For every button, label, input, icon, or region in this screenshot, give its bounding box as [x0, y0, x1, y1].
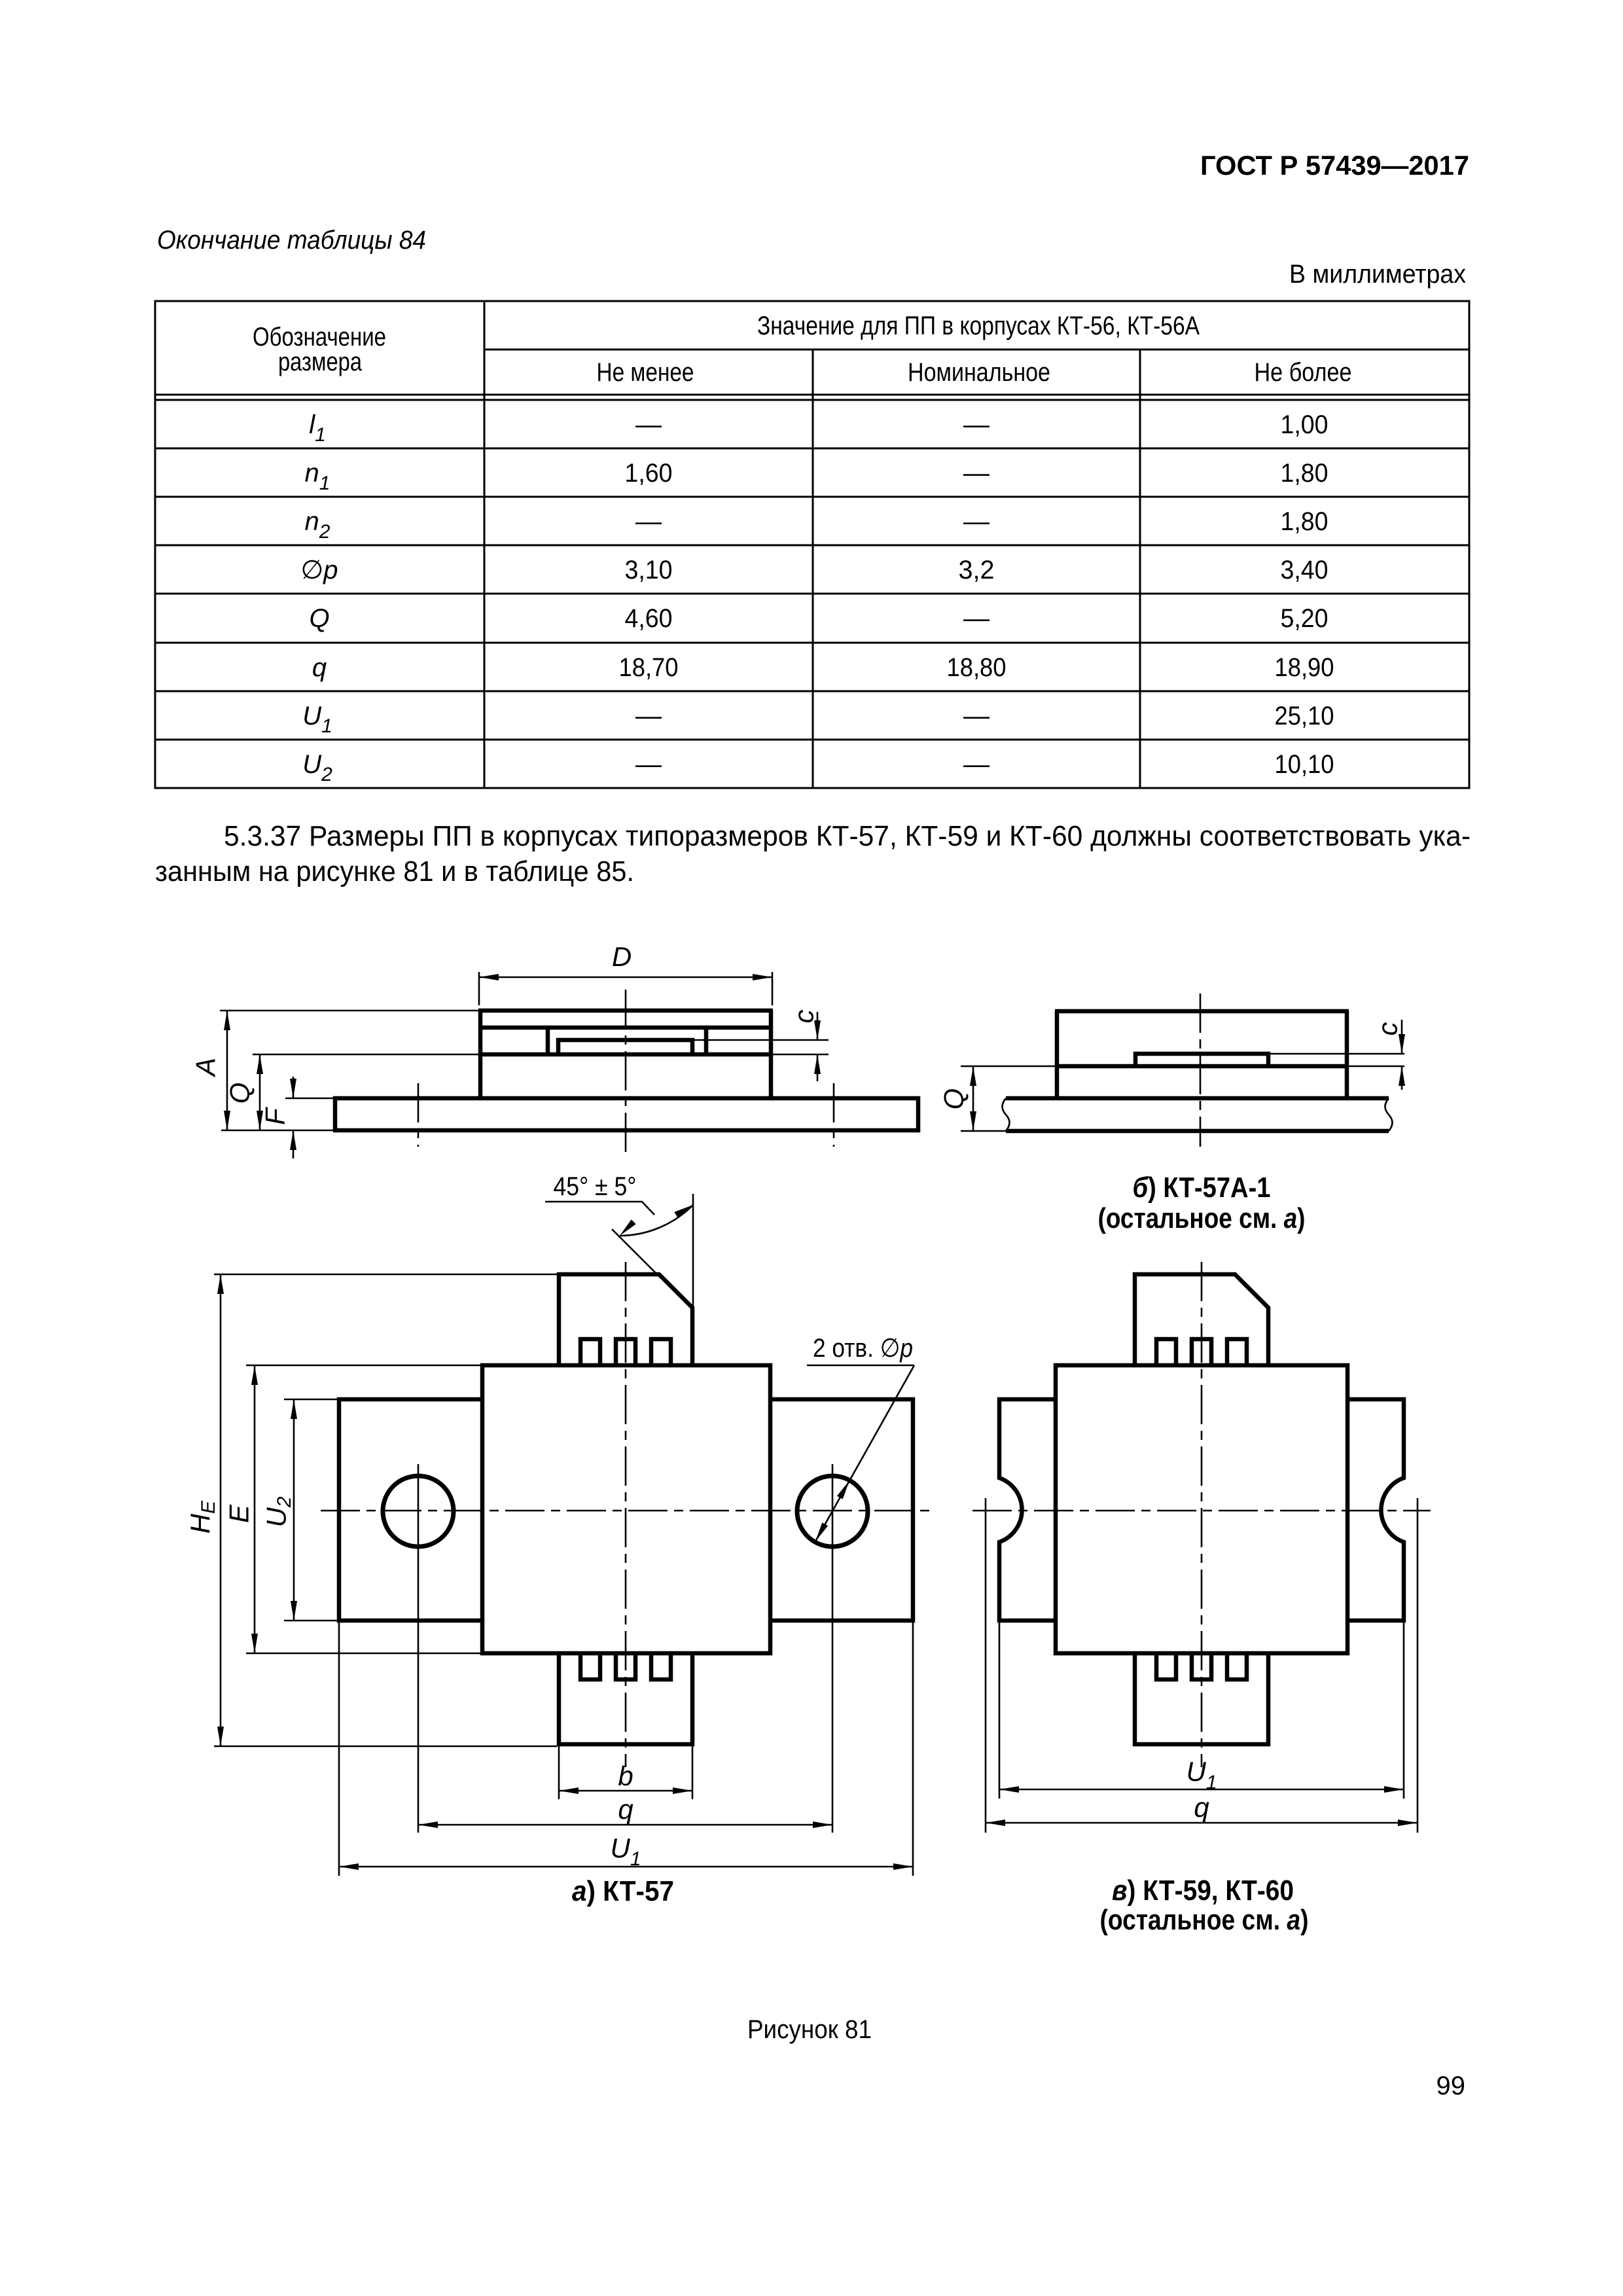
- c extension line upper (side view a): [692, 1039, 829, 1041]
- svg-text:—: —: [635, 702, 662, 730]
- bottom lead block (front view a): [559, 1655, 692, 1744]
- Q extension line upper (side view b): [961, 1066, 1055, 1067]
- D dimension line: [479, 977, 772, 978]
- svg-text:E: E: [224, 1504, 255, 1523]
- svg-text:3,40: 3,40: [1281, 556, 1329, 584]
- svg-text:в) КТ-59, КТ-60: в) КТ-59, КТ-60: [1112, 1874, 1294, 1907]
- body left wall (side view b): [1055, 1011, 1060, 1098]
- F extension line: [285, 1098, 335, 1100]
- left tab with notch (front view v): [999, 1399, 1056, 1621]
- top lead block (front view v): [1135, 1274, 1268, 1363]
- flange left break edge (side view b): [1003, 1098, 1010, 1131]
- Q dimension line (side view b): [972, 1066, 974, 1131]
- right tab (front view a): [772, 1399, 913, 1621]
- hole note leader: [815, 1365, 914, 1541]
- TABLE TEXT: [253, 312, 1352, 785]
- svg-text:—: —: [963, 410, 990, 439]
- bottom pin 1 (front view v): [1156, 1655, 1176, 1679]
- right tab with notch (front view v): [1347, 1399, 1404, 1621]
- D extension lines: [478, 972, 480, 1005]
- 45 deg label leader: [545, 1202, 654, 1215]
- top pin 1 (front view a): [580, 1339, 600, 1363]
- table row line 1: [155, 448, 1469, 450]
- horizontal centerline (front view v): [972, 1510, 1431, 1512]
- svg-text:—: —: [963, 459, 990, 488]
- U1 dimension line (front view v): [999, 1789, 1404, 1791]
- svg-text:занным на рисунке 81 и в табли: занным на рисунке 81 и в таблице 85.: [155, 855, 634, 888]
- svg-text:—: —: [635, 507, 662, 536]
- U1 dimension line (front view a): [339, 1866, 913, 1868]
- horizontal centerline (front view a): [321, 1510, 932, 1512]
- svg-text:5,20: 5,20: [1281, 604, 1329, 633]
- left tab (front view a): [339, 1399, 482, 1621]
- c extension line lower (side view a): [773, 1054, 829, 1056]
- body (front view v): [1056, 1365, 1347, 1653]
- svg-text:5.3.37 Размеры ПП в корпусах т: 5.3.37 Размеры ПП в корпусах типоразмеро…: [224, 820, 1471, 852]
- svg-text:Q: Q: [309, 604, 329, 633]
- flange (side view a): [335, 1098, 918, 1130]
- top lead block (front view a): [559, 1274, 692, 1363]
- svg-text:1,80: 1,80: [1281, 459, 1329, 488]
- body ledge line (side view a): [478, 1052, 773, 1057]
- right hole axis extension (front view a): [832, 1464, 834, 1833]
- TABLE GRID: [155, 301, 1469, 788]
- svg-text:(остальное см. а): (остальное см. а): [1100, 1904, 1309, 1936]
- svg-text:45° ± 5°: 45° ± 5°: [554, 1172, 637, 1201]
- svg-text:U2: U2: [261, 1496, 295, 1527]
- angle arc: [620, 1205, 693, 1236]
- svg-text:—: —: [963, 750, 990, 779]
- E top extension line: [246, 1365, 482, 1367]
- flange top line (side view b): [1006, 1096, 1389, 1101]
- svg-text:18,80: 18,80: [947, 653, 1007, 682]
- package body left wall (side view a): [478, 1011, 483, 1098]
- svg-text:б) КТ-57А-1: б) КТ-57А-1: [1133, 1172, 1271, 1204]
- bottom pin 1 (front view a): [580, 1655, 600, 1679]
- table row line 7: [155, 739, 1469, 741]
- svg-text:10,10: 10,10: [1275, 750, 1334, 779]
- body top line (side view b): [1055, 1009, 1349, 1014]
- right notch axis extension (front view v): [1417, 1498, 1419, 1833]
- svg-text:U2: U2: [302, 750, 332, 785]
- svg-text:Номинальное: Номинальное: [908, 358, 1050, 387]
- svg-text:18,90: 18,90: [1275, 653, 1334, 682]
- svg-text:q: q: [1194, 1792, 1209, 1823]
- left notch axis extension (front view v): [985, 1498, 987, 1833]
- centerline (side view b): [1200, 994, 1202, 1147]
- cap top line (side view a): [478, 1009, 773, 1013]
- U1 extension lines (front view v): [999, 1621, 1001, 1799]
- hole note underline: [807, 1365, 914, 1367]
- centerline package (side view a): [625, 990, 627, 1152]
- svg-text:ГОСТ Р 57439—2017: ГОСТ Р 57439—2017: [1200, 150, 1469, 181]
- DRAWING: [190, 941, 919, 1158]
- chamfer vertical extension: [692, 1194, 694, 1308]
- table header split line: [484, 349, 1469, 351]
- c dimension line (side view a): [817, 1012, 819, 1040]
- svg-text:Q: Q: [224, 1083, 255, 1104]
- flange bottom line (side view b): [1006, 1129, 1389, 1134]
- vertical centerline (front view v): [1201, 1262, 1203, 1767]
- svg-text:q: q: [618, 1794, 633, 1825]
- svg-text:b: b: [618, 1761, 633, 1791]
- svg-text:n2: n2: [305, 507, 330, 543]
- centerline left hole (side view a): [418, 1083, 419, 1147]
- svg-text:F: F: [260, 1107, 291, 1125]
- table row line 4: [155, 593, 1469, 595]
- Q dimension line (side view a): [259, 1054, 261, 1130]
- svg-text:18,70: 18,70: [619, 653, 679, 682]
- svg-text:U1: U1: [302, 702, 332, 737]
- table row line 6: [155, 691, 1469, 692]
- svg-text:25,10: 25,10: [1275, 702, 1334, 730]
- svg-text:1,60: 1,60: [625, 459, 673, 488]
- svg-text:—: —: [963, 702, 990, 730]
- svg-text:3,2: 3,2: [959, 556, 995, 584]
- flange bottom extension line: [221, 1130, 335, 1132]
- U2 bottom extension line: [284, 1620, 339, 1622]
- F dimension line: [293, 1077, 294, 1098]
- U1 extension lines (front view a): [338, 1621, 340, 1876]
- b extension lines: [558, 1746, 560, 1799]
- svg-text:A: A: [190, 1058, 221, 1078]
- svg-text:а) КТ-57: а) КТ-57: [572, 1875, 674, 1907]
- body (front view a): [482, 1365, 770, 1653]
- svg-text:3,10: 3,10: [625, 556, 673, 584]
- table outer border: [155, 301, 1469, 788]
- c dimension line (side view b): [1401, 1020, 1403, 1054]
- table row line 2: [155, 496, 1469, 498]
- svg-text:—: —: [635, 410, 662, 439]
- svg-text:99: 99: [1436, 2072, 1466, 2100]
- left hole axis extension (front view a): [418, 1464, 419, 1833]
- body ledge line (side view b): [1055, 1064, 1349, 1069]
- centerline right hole (side view a): [833, 1083, 835, 1147]
- HE top extension line: [214, 1274, 557, 1276]
- left post (side view a): [546, 1028, 550, 1054]
- bottom pin 2 (front view a): [616, 1655, 635, 1679]
- svg-text:2 отв. ∅p: 2 отв. ∅p: [813, 1334, 913, 1363]
- bottom lead block (front view v): [1135, 1655, 1268, 1744]
- top pin 2 (front view a): [616, 1339, 635, 1363]
- svg-text:D: D: [612, 941, 632, 972]
- svg-text:4,60: 4,60: [625, 604, 673, 633]
- svg-text:—: —: [963, 507, 990, 536]
- q dimension line (front view v): [986, 1822, 1418, 1824]
- E bottom extension line: [246, 1653, 482, 1655]
- table column line 2: [812, 350, 814, 788]
- bottom pin 3 (front view a): [651, 1655, 671, 1679]
- crystal lid (side view b): [1135, 1054, 1268, 1066]
- top pin 1 (front view v): [1156, 1339, 1176, 1363]
- svg-text:1,00: 1,00: [1281, 410, 1329, 439]
- HE dimension line: [220, 1274, 222, 1746]
- package body right wall (side view a): [769, 1011, 774, 1098]
- svg-text:c: c: [789, 1010, 819, 1024]
- svg-text:(остальное см. а): (остальное см. а): [1098, 1202, 1306, 1234]
- top pin 2 (front view v): [1192, 1339, 1211, 1363]
- svg-text:c: c: [1372, 1022, 1403, 1036]
- HE bottom extension line: [214, 1746, 557, 1748]
- svg-text:U1: U1: [610, 1833, 641, 1870]
- top pin 3 (front view v): [1227, 1339, 1247, 1363]
- Q extension line: [253, 1054, 478, 1056]
- table row line 5: [155, 642, 1469, 644]
- svg-text:Рисунок 81: Рисунок 81: [747, 2015, 872, 2044]
- vertical centerline (front view a): [625, 1262, 627, 1767]
- svg-text:—: —: [635, 750, 662, 779]
- flange right break edge (side view b): [1385, 1098, 1393, 1131]
- A dimension line: [226, 1011, 228, 1130]
- table double rule lower: [155, 399, 1469, 401]
- bottom pin 2 (front view v): [1192, 1655, 1211, 1679]
- bottom pin 3 (front view v): [1227, 1655, 1247, 1679]
- right mounting hole (front view a): [797, 1476, 868, 1547]
- b dimension line: [559, 1790, 692, 1792]
- table row line 3: [155, 545, 1469, 547]
- svg-text:HE: HE: [185, 1500, 219, 1534]
- crystal lid (side view a): [558, 1040, 692, 1054]
- q dimension line (front view a): [418, 1824, 832, 1826]
- table column line 1: [484, 301, 486, 788]
- A extension line top: [220, 1010, 478, 1012]
- svg-text:Окончание таблицы 84: Окончание таблицы 84: [157, 226, 426, 255]
- cap bottom line (side view a): [478, 1026, 773, 1030]
- svg-text:U1: U1: [1186, 1756, 1217, 1793]
- svg-text:В миллиметрах: В миллиметрах: [1289, 260, 1466, 289]
- c extension line lower (side view b): [1349, 1066, 1404, 1067]
- svg-text:1,80: 1,80: [1281, 507, 1329, 536]
- top pin 3 (front view a): [651, 1339, 671, 1363]
- svg-text:Q: Q: [938, 1088, 969, 1110]
- table double rule upper: [155, 394, 1469, 396]
- table column line 3: [1139, 350, 1141, 788]
- svg-text:l1: l1: [309, 410, 326, 446]
- U2 top extension line: [284, 1399, 339, 1401]
- svg-text:n1: n1: [305, 459, 330, 494]
- right post (side view a): [704, 1028, 709, 1054]
- E dimension line: [254, 1365, 256, 1653]
- svg-text:∅p: ∅p: [300, 556, 338, 584]
- svg-text:q: q: [312, 653, 327, 682]
- svg-text:Не более: Не более: [1255, 358, 1352, 387]
- left mounting hole (front view a): [383, 1476, 454, 1547]
- U2 dimension line: [293, 1399, 295, 1621]
- svg-text:Значение для ПП в корпусах КТ-: Значение для ПП в корпусах КТ-56, КТ-56А: [757, 312, 1200, 340]
- svg-text:—: —: [963, 604, 990, 633]
- Q extension line lower (side view b): [961, 1130, 1006, 1132]
- svg-text:размера: размера: [278, 348, 363, 376]
- c extension line upper (side view b): [1268, 1053, 1404, 1055]
- body right wall (side view b): [1345, 1011, 1349, 1098]
- chamfer extension diagonal: [612, 1229, 661, 1278]
- svg-text:Не менее: Не менее: [597, 358, 694, 387]
